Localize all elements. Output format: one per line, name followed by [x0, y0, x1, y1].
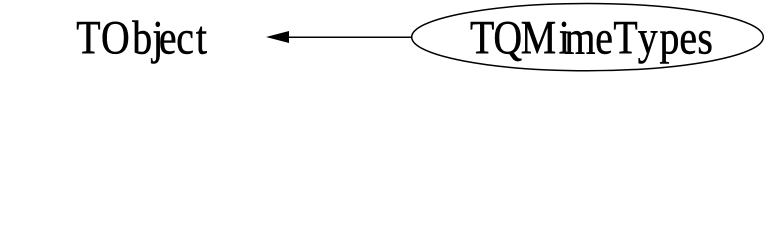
arrowhead pointing left at TObject — [268, 32, 289, 43]
wire: inheritance arrow shaft from TQMimeTypes ellipse to TObject — [288, 36, 412, 38]
ellipse node TQMimeTypes (derived class) — [412, 4, 764, 71]
svg-text:TObject: TObject — [76, 11, 207, 64]
svg-text:TQMimeTypes: TQMimeTypes — [470, 11, 713, 64]
